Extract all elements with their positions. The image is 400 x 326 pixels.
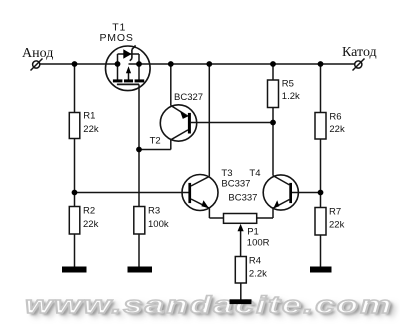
svg-text:22k: 22k [329,219,345,230]
svg-text:R7: R7 [329,206,341,217]
svg-text:R3: R3 [148,205,160,216]
svg-text:100R: 100R [247,237,270,248]
svg-text:R6: R6 [329,111,341,122]
svg-text:22k: 22k [83,219,99,230]
svg-text:22k: 22k [329,124,345,135]
svg-text:2.2k: 2.2k [249,268,267,279]
svg-text:T4: T4 [249,168,260,179]
svg-text:Анод: Анод [22,46,53,61]
svg-text:BC327: BC327 [174,92,203,103]
svg-text:R2: R2 [83,205,95,216]
svg-text:R5: R5 [282,78,294,89]
svg-text:100k: 100k [148,219,169,230]
svg-text:T3: T3 [221,168,232,179]
svg-text:R1: R1 [83,110,95,121]
svg-text:Катод: Катод [342,45,377,60]
svg-text:T2: T2 [150,135,161,146]
svg-text:1.2k: 1.2k [282,91,300,102]
svg-text:BC337: BC337 [221,179,250,190]
svg-text:PMOS: PMOS [100,32,134,44]
svg-text:P1: P1 [247,227,259,238]
svg-text:22k: 22k [83,124,99,135]
svg-text:R4: R4 [249,255,261,266]
svg-text:BC337: BC337 [228,193,257,204]
